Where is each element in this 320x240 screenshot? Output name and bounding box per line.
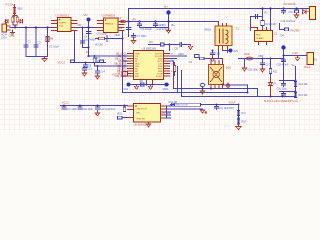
wire x283 down — [283, 59, 285, 81]
net label box b — [100, 60, 104, 63]
comp 2 — [78, 106, 82, 109]
wire vcc mid — [88, 28, 90, 57]
svg-text:EE16: EE16 — [205, 28, 212, 32]
junction — [25, 26, 27, 28]
svg-text:Vref: Vref — [124, 87, 129, 91]
svg-text:C21 10uF/25V: C21 10uF/25V — [219, 107, 235, 110]
svg-text:D4: D4 — [281, 34, 285, 38]
cap — [261, 63, 265, 67]
U5 right pins — [161, 106, 167, 118]
svg-text:C18 100n: C18 100n — [83, 108, 94, 111]
snubber diode D2 box — [261, 21, 265, 26]
svg-text:VOUT: VOUT — [229, 100, 237, 104]
wire T1 sec to bridge — [219, 58, 223, 60]
ground — [242, 67, 246, 72]
wire into U3 top — [149, 45, 170, 51]
bulk cap branch left — [83, 28, 89, 48]
drop x270 resistor — [270, 59, 272, 79]
junction top right a — [282, 7, 284, 9]
power dot right — [165, 83, 169, 87]
red arrow mid — [200, 109, 207, 115]
wire DC rail — [126, 22, 219, 27]
U3 left pins — [128, 54, 134, 77]
bottom rail under U3 — [129, 84, 169, 86]
cap C7a — [127, 28, 131, 30]
red comp on rail — [226, 83, 229, 88]
U5 ground — [146, 122, 150, 127]
cap bubble — [200, 83, 205, 90]
svg-text:GND FB: GND FB — [137, 119, 146, 121]
svg-text:GND1: GND1 — [159, 23, 167, 27]
junction — [85, 62, 87, 64]
junction — [146, 84, 148, 86]
svg-text:12A: 12A — [59, 25, 63, 28]
IC U1 — [58, 18, 72, 32]
wire branch x47 — [47, 28, 49, 57]
wire U3 pin row a — [89, 55, 128, 57]
label box under junction — [295, 10, 299, 13]
ground on rail — [134, 85, 138, 90]
divider rail x295 — [295, 67, 297, 97]
svg-text:CS: CS — [189, 60, 193, 64]
junction — [269, 7, 271, 9]
svg-text:C16 100n: C16 100n — [277, 88, 288, 91]
svg-text:C18 100n: C18 100n — [248, 69, 259, 72]
bridge BD1 — [209, 65, 224, 85]
power flag B+ — [166, 10, 170, 27]
svg-text:C5: C5 — [119, 26, 123, 30]
svg-text:C20 10uF: C20 10uF — [161, 112, 172, 115]
ground — [95, 111, 99, 116]
ground arrow under label — [294, 13, 298, 18]
junction — [167, 20, 169, 22]
svg-text:C14: C14 — [100, 70, 105, 74]
U2 left pins — [98, 21, 104, 31]
comp box mid — [175, 103, 201, 106]
wire left y91 — [280, 91, 296, 93]
svg-text:C17: C17 — [266, 64, 271, 67]
cap C8b — [179, 43, 184, 47]
small comp on wire — [161, 43, 165, 46]
net label box — [200, 57, 205, 60]
net label box — [172, 103, 177, 106]
svg-text:220V: 220V — [1, 37, 7, 40]
svg-text:C7 100n: C7 100n — [137, 34, 147, 38]
red arrow on rail — [148, 85, 152, 90]
varistor RV1 — [12, 16, 18, 28]
wire — [122, 117, 128, 119]
U1 left pins — [52, 21, 58, 31]
svg-text:C15 470uF: C15 470uF — [277, 64, 289, 67]
divider x238 — [238, 105, 240, 127]
background grid — [0, 0, 320, 132]
junction — [270, 58, 272, 60]
svg-text:EN: EN — [137, 113, 140, 115]
junction — [216, 104, 218, 106]
U3 right wires nest — [170, 56, 187, 61]
resistor box — [294, 82, 297, 87]
net label box a — [71, 60, 75, 63]
fb wire row — [239, 58, 284, 60]
ground arrow right of C8 — [188, 45, 192, 50]
crystal Y1 — [141, 83, 144, 86]
svg-text:C19 10uF/16V: C19 10uF/16V — [100, 108, 116, 111]
capacitor C2 — [34, 45, 38, 47]
diode D left — [4, 20, 8, 24]
capacitor C4 — [86, 32, 90, 34]
TL431 — [269, 79, 273, 97]
ground PE — [11, 30, 15, 35]
cap C9 — [138, 22, 142, 28]
wire branch x35.5 — [35, 28, 37, 57]
comp 3 — [96, 106, 100, 109]
red resistor vert — [173, 63, 176, 76]
wire U3 pin row b — [95, 65, 128, 67]
snubber drop right — [270, 9, 272, 31]
small label box right — [195, 55, 200, 58]
cap mid — [215, 105, 219, 110]
svg-text:R3 2M: R3 2M — [96, 44, 103, 47]
U3 right pins — [164, 54, 170, 77]
wire right from junction — [170, 44, 179, 46]
U1 pin1 dot — [59, 19, 61, 21]
CN1 pins — [7, 26, 11, 30]
svg-text:VIPER: VIPER — [59, 23, 66, 25]
cap — [282, 92, 286, 96]
junction — [261, 7, 263, 9]
junction — [295, 80, 297, 82]
resistor R5 — [93, 58, 96, 63]
svg-text:RxGND: RxGND — [291, 29, 300, 33]
T1 secondary wires — [219, 51, 229, 59]
junction — [238, 104, 240, 106]
cap C11 — [282, 9, 286, 14]
wire branch x25.5 — [25, 28, 27, 57]
wire x122 long vertical — [122, 31, 124, 93]
U5 dot — [135, 105, 137, 107]
right rail y104 — [171, 104, 239, 106]
resistor box 2 — [294, 93, 297, 98]
junction — [46, 26, 48, 28]
net stub — [280, 24, 285, 30]
junction — [283, 58, 285, 60]
T1 pins bottom — [219, 47, 228, 53]
wire AC L — [10, 27, 52, 29]
junction — [127, 20, 129, 22]
junction — [168, 43, 170, 45]
pin numbers right of U3 — [171, 54, 174, 79]
svg-text:FB: FB — [78, 23, 82, 27]
snubber box pins — [251, 28, 267, 31]
resistor R3 horizontal — [99, 37, 105, 39]
IC U3 main — [134, 51, 164, 80]
diode D right — [19, 20, 23, 24]
junction — [88, 47, 90, 49]
junction — [63, 105, 65, 107]
svg-text:T1: T1 — [236, 27, 240, 31]
res 1 — [237, 111, 240, 116]
svg-text:C3 10uF: C3 10uF — [49, 45, 59, 49]
wire label row y58 — [205, 58, 219, 60]
ground — [260, 67, 264, 73]
svg-text:R8: R8 — [140, 79, 144, 83]
svg-text:FLT: FLT — [113, 74, 118, 77]
U5 left label box — [118, 116, 123, 119]
svg-text:TL431-1.24V=VREF/DIV+Co: TL431-1.24V=VREF/DIV+Co — [264, 99, 299, 103]
svg-text:C17 100n: C17 100n — [67, 108, 78, 111]
junction — [97, 65, 99, 67]
svg-text:1M: 1M — [50, 37, 54, 41]
svg-text:R13 10k: R13 10k — [299, 83, 309, 86]
U3 right pin names — [155, 54, 163, 79]
wire U1 out loop — [75, 31, 106, 63]
cap C7a stub — [128, 22, 130, 37]
cap C15 — [282, 59, 286, 64]
drop x262 cap — [262, 59, 264, 63]
comp 4 resistor — [123, 107, 126, 112]
T1 pins top — [219, 22, 227, 26]
svg-text:U3 OB2269: U3 OB2269 — [142, 47, 157, 51]
junction — [152, 84, 154, 86]
cap plates on left branch — [81, 41, 85, 43]
svg-text:C11: C11 — [289, 11, 294, 14]
power flag +12V — [229, 49, 233, 53]
ground — [200, 91, 204, 94]
U1 right pins — [71, 21, 77, 31]
drop x244 — [244, 59, 246, 67]
svg-text:C13: C13 — [87, 67, 92, 71]
snubber drop left — [251, 9, 263, 31]
svg-text:R18: R18 — [242, 121, 247, 124]
R5 column — [94, 56, 96, 66]
IC U2 — [104, 18, 119, 33]
junction — [94, 55, 96, 57]
junction — [87, 55, 89, 57]
ground — [42, 57, 47, 62]
cap C14a — [96, 66, 100, 75]
svg-text:C13: C13 — [215, 52, 220, 56]
R3 wires — [96, 38, 123, 40]
resistor R1 — [46, 37, 49, 42]
svg-text:SYNC: SYNC — [156, 76, 162, 78]
wire bottom rail left — [26, 56, 48, 58]
inductor L3 — [310, 7, 316, 20]
svg-text:CLAMP: CLAMP — [256, 37, 264, 40]
junction — [138, 20, 140, 22]
lower wire — [167, 108, 203, 110]
IC U5 — [134, 104, 161, 123]
svg-text:VDD: VDD — [163, 87, 169, 91]
U5 left pins — [128, 106, 134, 118]
out wire y55 — [284, 55, 309, 57]
cap C13a — [83, 67, 87, 72]
svg-text:U1 SM7012: U1 SM7012 — [56, 14, 70, 18]
svg-text:R5: R5 — [97, 59, 101, 63]
bottom rail y105 — [61, 105, 128, 107]
svg-text:VCC2: VCC2 — [62, 101, 70, 105]
snubber bottom pins — [259, 42, 267, 45]
svg-text:10uF/450V: 10uF/450V — [84, 39, 96, 42]
svg-text:R10: R10 — [245, 52, 250, 56]
svg-text:VIN VOUT: VIN VOUT — [137, 109, 148, 111]
nested corners — [173, 61, 175, 89]
U3 left pin names — [135, 54, 140, 79]
svg-text:C12 2n2/1kV: C12 2n2/1kV — [281, 19, 296, 23]
cap — [282, 81, 286, 87]
wire into U2 — [78, 27, 98, 29]
U5 right bus — [167, 106, 171, 118]
ground — [236, 124, 241, 130]
power flag +300V — [87, 18, 91, 28]
svg-text:R15: R15 — [118, 113, 123, 116]
U2 pin1 dot — [105, 19, 107, 21]
junction — [124, 105, 126, 107]
junction — [282, 96, 284, 98]
junction — [283, 55, 285, 57]
wire HV bus top — [129, 9, 310, 22]
junction — [262, 58, 264, 60]
junction — [87, 26, 89, 28]
svg-text:R14 10k: R14 10k — [299, 94, 309, 97]
snubber box — [255, 31, 273, 42]
svg-text:VCC1: VCC1 — [58, 61, 66, 65]
svg-text:DRV: DRV — [179, 52, 185, 56]
svg-text:R12: R12 — [273, 71, 278, 74]
svg-text:FB2: FB2 — [259, 54, 264, 58]
sense resistor — [186, 55, 188, 57]
junction — [238, 117, 240, 119]
junction — [79, 105, 81, 107]
BD1 diag — [211, 68, 222, 82]
svg-text:C1: C1 — [28, 40, 32, 44]
svg-text:470uF: 470uF — [304, 66, 311, 69]
U3 left net texts — [114, 54, 127, 79]
junction — [212, 50, 214, 52]
svg-text:C8: C8 — [175, 47, 179, 51]
svg-text:PN8024: PN8024 — [105, 24, 114, 26]
power down arrow — [167, 28, 171, 34]
junction — [82, 27, 84, 29]
ground under C7 — [131, 39, 135, 44]
resistor — [269, 69, 272, 74]
cap C7 — [132, 34, 136, 39]
comp 1 — [62, 106, 66, 109]
junction dots bottom — [210, 88, 212, 90]
svg-text:B+: B+ — [165, 5, 169, 9]
svg-text:D6 SS210: D6 SS210 — [284, 2, 296, 6]
net label box — [285, 28, 289, 31]
cap C10 — [154, 22, 158, 28]
snubber cap — [256, 14, 258, 18]
R3 plus tick — [106, 36, 108, 42]
svg-text:F1 2A: F1 2A — [6, 3, 14, 7]
ground under cap — [82, 72, 86, 77]
diode D3 — [303, 10, 309, 14]
junction top right b — [295, 7, 297, 9]
junction — [97, 105, 99, 107]
junction — [202, 88, 204, 90]
svg-text:WB2012-601: WB2012-601 — [176, 105, 190, 107]
cap elec out — [307, 53, 314, 65]
svg-text:RCD: RCD — [256, 35, 261, 37]
capacitor CX1 — [24, 45, 28, 47]
svg-text:R4: R4 — [133, 18, 137, 22]
svg-text:R6: R6 — [150, 40, 154, 44]
inductor L2 — [121, 20, 126, 22]
junction — [154, 20, 156, 22]
power flag +12Vb — [281, 45, 285, 58]
svg-text:C2: C2 — [38, 41, 42, 45]
BD1 pins bottom — [211, 85, 223, 89]
cap C13s — [211, 51, 215, 57]
red label box left of U3 — [122, 72, 128, 77]
svg-text:B+: B+ — [172, 23, 176, 27]
TL431 row red resistor — [247, 57, 253, 60]
junction — [122, 38, 124, 40]
U2 right pins — [118, 22, 124, 31]
svg-text:12V: 12V — [234, 49, 239, 53]
svg-text:+12V: +12V — [292, 51, 299, 55]
cap C6 — [84, 63, 88, 68]
ground — [210, 57, 214, 62]
svg-text:10uH: 10uH — [115, 34, 121, 37]
svg-text:250V: 250V — [17, 8, 23, 11]
ground under cap2 — [95, 75, 99, 80]
fuse F1 — [13, 5, 15, 17]
svg-text:D2 FR107: D2 FR107 — [266, 23, 278, 26]
T1 windings — [220, 29, 228, 44]
junction at cluster — [14, 27, 16, 29]
junction — [35, 26, 37, 28]
svg-text:C5 100nF: C5 100nF — [97, 33, 108, 36]
transformer T1 — [215, 26, 232, 46]
junction — [295, 91, 297, 93]
power dot left — [127, 83, 131, 87]
svg-text:BD1: BD1 — [226, 66, 232, 70]
wire caps bottom — [140, 27, 169, 29]
svg-text:U2 PN8024: U2 PN8024 — [102, 14, 116, 18]
short stub left of U3 — [123, 60, 128, 62]
wire left y80 — [280, 80, 296, 82]
wire after C8 — [184, 44, 191, 46]
BD1 pins top — [211, 59, 223, 65]
junction — [247, 92, 249, 94]
U3 bottom pins — [147, 80, 153, 85]
junction — [270, 96, 272, 98]
svg-text:VD: VD — [84, 13, 88, 17]
res 2 — [237, 119, 240, 124]
ground arrow mid — [295, 56, 299, 61]
connector CN1 — [2, 24, 7, 32]
svg-text:R17: R17 — [242, 112, 247, 115]
